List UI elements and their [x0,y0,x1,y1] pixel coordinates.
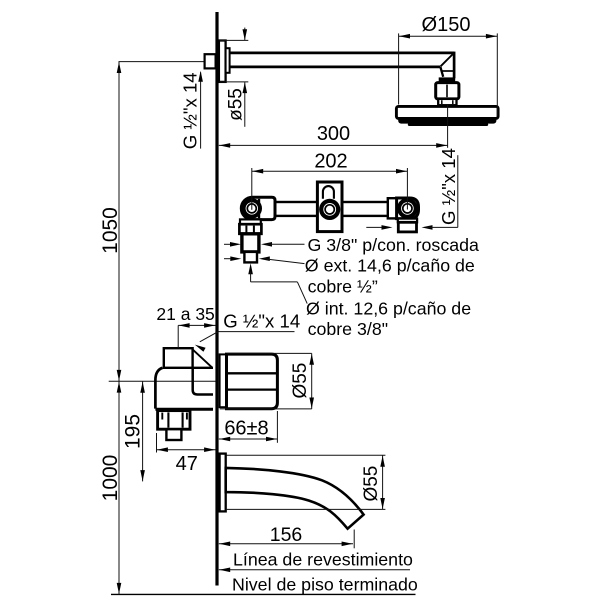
spout nut facet 1 [167,412,169,427]
svg-text:Nivel de piso terminado: Nivel de piso terminado [232,574,418,594]
shower head dark rim [398,117,496,124]
mixer body crossbar [260,202,390,216]
shower arm pipe top edge [230,52,455,55]
dimension line Ø55 arm lower [244,82,246,127]
arrow Ø55 knob up [309,354,314,365]
shower head connector dark band [439,77,456,82]
shower arm elbow lower-left edge [440,67,443,77]
arrow 202 right [396,169,407,174]
left valve body [241,197,275,219]
arrow 1000 top [117,382,122,393]
spout valve G1/2 connector box [164,348,193,368]
arrow Ø55 arm up [243,82,248,93]
arrow 156 left [219,542,230,547]
spout valve elbow inner edge [193,368,213,395]
extension line spout top [226,454,385,456]
arrow G1/2 arm label [198,71,203,82]
arrow 202 left [252,169,263,174]
arrow 300 left [219,143,230,148]
arrow 195 bottom [140,470,145,481]
dimension line 21 a 35 [178,324,215,326]
svg-text:202: 202 [314,151,347,173]
left valve stack collar band [240,219,261,224]
leader G1/2 right valve vertical [457,155,459,227]
dimension line 156 [219,543,353,545]
arrow 156 right [342,542,353,547]
centre diverter outlet circle [319,199,340,220]
arrow 1050 bottom [117,370,122,381]
shower head nut [436,83,459,99]
extension line knob bottom [220,408,312,410]
spout valve trim plate [220,354,226,407]
extension line knob top [227,352,312,354]
arrow Ø55 spout up [380,456,385,467]
leader linea de revestimiento [219,569,410,571]
knob band line 1 [227,372,276,374]
arrow G3/8 left [230,242,241,247]
extension line 202 left through valve centre [251,168,253,210]
dimension line Ø55 arm upper [244,28,246,40]
extension line 21a35 [177,325,179,348]
svg-text:47: 47 [176,453,198,475]
svg-text:G 3/8" p/con. roscada: G 3/8" p/con. roscada [308,235,479,255]
svg-text:G ½"x 14: G ½"x 14 [179,72,200,149]
arrow G1/2 right valve left [382,225,393,230]
stack nut facet 2 [253,226,255,233]
leader G3/8 right segment [266,243,305,245]
leader G3/8 left segment [224,243,236,245]
dimension line 1050 [118,62,120,382]
dimension line Ø150 [399,35,498,37]
collar facet left [441,100,443,104]
right valve connector [388,198,397,218]
floor line (nivel de piso terminado) [111,593,416,595]
svg-text:1000: 1000 [99,455,122,502]
dimension line 47 [157,449,216,451]
svg-text:Ø55: Ø55 [290,363,311,399]
arrow 66±8 left [219,437,230,442]
arrow Øext right [259,256,270,261]
shower head plate Ø150 [396,106,498,118]
svg-text:300: 300 [317,123,350,145]
svg-text:Ø int. 12,6 p/caño de: Ø int. 12,6 p/caño de [306,298,471,318]
svg-text:G ½"x 14: G ½"x 14 [223,311,300,332]
knob band line 2 [227,388,276,390]
svg-text:Ø150: Ø150 [422,14,471,36]
shower arm elbow divider [442,70,454,72]
right valve circle [397,198,418,219]
dimension line 195 [142,381,144,481]
arrow G1/2 right valve right [422,225,433,230]
shower arm elbow mitre line [441,54,454,67]
arrow G1/2 spout valve [195,345,206,352]
stack nut facet 1 [245,226,247,233]
arrow G3/8 right [261,242,272,247]
wall line (linea de revestimiento) [215,12,218,586]
svg-text:66±8: 66±8 [224,418,268,440]
svg-text:ø55: ø55 [225,88,246,121]
extension line 66±8 right [276,411,278,443]
extension line Ø150 right [496,33,498,116]
extension line arm flange top [219,39,248,41]
left valve stack nut [239,224,261,234]
leader Øint vertical [250,272,252,282]
shower arm elbow outer edge [453,52,456,79]
arm flange step [226,48,230,73]
spout nut facet 2 [182,412,184,427]
dimension line 300 [219,144,448,146]
spout valve knob Ø55 [227,354,278,409]
arrow Ø150 right [486,34,497,39]
dimension line Ø55 spout [382,455,384,509]
leader G1/2 spout valve [200,332,218,342]
arrow 47 right [204,447,215,452]
arrow 1000 bottom [117,583,122,594]
svg-text:Ø ext. 14,6 p/caño de: Ø ext. 14,6 p/caño de [305,255,475,275]
arrow 66±8 right [266,437,277,442]
svg-text:21 a 35: 21 a 35 [156,304,214,324]
arrow 300 right [436,143,447,148]
left valve body joint [258,199,260,218]
shower head centre line [447,105,449,148]
dimension line 1000 [118,381,120,594]
left valve circle [242,198,262,218]
dimension line Ø55 knob [311,353,313,409]
shower head nut facet [446,85,448,98]
svg-text:G ½"x 14: G ½"x 14 [438,148,459,225]
svg-text:cobre 3/8": cobre 3/8" [308,319,388,339]
svg-text:156: 156 [270,524,303,546]
extension line Ø150 left [398,33,400,104]
extension line 202 right through valve centre [406,168,408,210]
spout valve tail piece [166,429,181,440]
shower head bottom shadow [408,123,488,126]
arrow Ø150 left [399,34,410,39]
label underline G1/2 arm [200,72,202,148]
dimension line 202 [252,170,408,172]
leader G1/2 right valve left segment [366,226,383,228]
leader Øint diagonal [297,282,307,304]
spout valve nut [158,411,190,430]
label underline G1/2 spout valve [218,331,294,333]
extension line arm flange bottom [219,81,248,83]
shower arm pipe bottom edge [230,66,441,69]
left valve G3/8 tube [242,234,259,252]
arrow Ø55 arm down [243,29,248,40]
arrow linea de revestimiento [219,568,230,573]
spout nut thread mark left [161,413,163,420]
collar facet right [452,100,454,104]
extension line supply axis y381 [109,380,216,382]
arrow 21a35 right [204,323,215,328]
arrow 21a35 left [179,323,190,328]
arrow Øint up [248,263,253,274]
svg-text:195: 195 [122,414,145,449]
dimension line 66±8 [219,438,278,440]
svg-text:1050: 1050 [99,207,122,254]
arrow Øext left [230,256,241,261]
centre diverter arch detail [323,186,334,199]
arm wall nipple G1/2 [205,54,216,68]
arrow Ø55 spout down [380,498,385,509]
extension line shower-arm axis y61.6 [119,61,205,63]
extension line 47 left [156,433,158,453]
leader Øext right segment [264,259,305,264]
arrow 47 left [157,447,168,452]
right valve body [397,198,419,219]
arrow Ø55 knob down [309,398,314,409]
spout nut thread mark right [186,413,188,420]
right valve fitting band [398,219,417,223]
svg-text:Línea de revestimiento: Línea de revestimiento [233,550,413,570]
extension line spout tip [353,530,355,549]
svg-text:cobre ½”: cobre ½” [308,276,378,296]
arrow 195 top [140,382,145,393]
spout valve elbow outer edge [155,368,162,409]
leader Øint horizontal [251,281,298,283]
shower head collar [438,99,456,105]
leader Øext left segment [224,258,233,260]
arrow 1050 top [117,62,122,73]
arm flange plate [219,41,226,82]
left valve tube end [244,252,257,263]
spout valve cone base [193,367,213,369]
spout valve nut top line [155,408,213,411]
leader G1/2 right valve horizontal [427,226,458,228]
centre diverter body [317,182,342,232]
extension line spout bottom [226,508,385,510]
bath spout body [226,468,364,529]
spout flange [220,454,226,512]
spout valve cone edge [193,349,212,367]
right valve G1/2 fitting [398,222,416,232]
svg-text:Ø55: Ø55 [361,466,382,502]
